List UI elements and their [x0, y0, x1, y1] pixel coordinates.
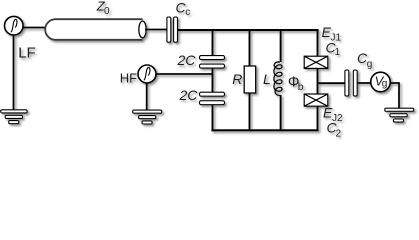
svg-text:LF: LF — [18, 45, 36, 62]
svg-text:R: R — [232, 71, 242, 87]
ground (HF) — [133, 110, 162, 124]
wire JJ branch bottom — [317, 106, 319, 131]
AC source HF — [138, 65, 156, 83]
svg-text:2C: 2C — [179, 87, 199, 103]
inductor L (coil) — [274, 62, 282, 95]
Josephson junction EJ2 — [304, 94, 328, 106]
ground (LF) — [1, 110, 27, 124]
wire HF source down to ground — [146, 82, 148, 110]
wire LF source down to ground — [13, 34, 15, 110]
wire JJ branch top — [317, 29, 319, 57]
svg-text:L: L — [263, 71, 271, 87]
capacitor Cg — [345, 70, 357, 96]
capacitor Cc — [167, 17, 178, 42]
wire JJ node to Cg — [318, 82, 346, 84]
svg-text:HF: HF — [120, 71, 137, 86]
svg-text:b: b — [298, 81, 304, 93]
wire between 2C caps — [212, 68, 214, 93]
wire R branch top — [249, 30, 251, 67]
svg-text:1: 1 — [335, 47, 341, 58]
wire L branch bottom — [280, 95, 282, 131]
wire Cg to Vg — [357, 82, 371, 84]
svg-text:g: g — [382, 78, 388, 89]
ground (Vg) — [385, 108, 414, 122]
wire HF source to 2C midpoint — [155, 73, 213, 75]
wire transmission line to Cc — [145, 29, 167, 31]
Josephson junction EJ1 — [304, 56, 328, 68]
wire 2C branch top — [212, 30, 214, 56]
capacitor 2C (bottom) — [200, 92, 225, 105]
wire bottom rail — [211, 129, 318, 131]
wire between junctions — [317, 68, 319, 94]
voltage source Vg — [371, 72, 391, 92]
wire LF source to transmission line — [23, 27, 47, 29]
transmission line Z0 (coax cylinder) — [45, 19, 142, 40]
svg-text:g: g — [367, 59, 373, 70]
wire 2C branch bottom — [212, 105, 214, 132]
svg-text:0: 0 — [104, 6, 110, 17]
resistor R — [244, 66, 256, 93]
wire Vg to right ground — [390, 83, 399, 108]
svg-text:2C: 2C — [177, 52, 197, 68]
wire R branch bottom — [249, 93, 251, 131]
AC source LF — [5, 16, 24, 35]
capacitor 2C (top) — [200, 56, 225, 69]
wire top rail — [178, 29, 319, 31]
svg-text:2: 2 — [336, 129, 342, 140]
wire L branch top — [280, 30, 282, 62]
svg-text:c: c — [185, 7, 190, 18]
